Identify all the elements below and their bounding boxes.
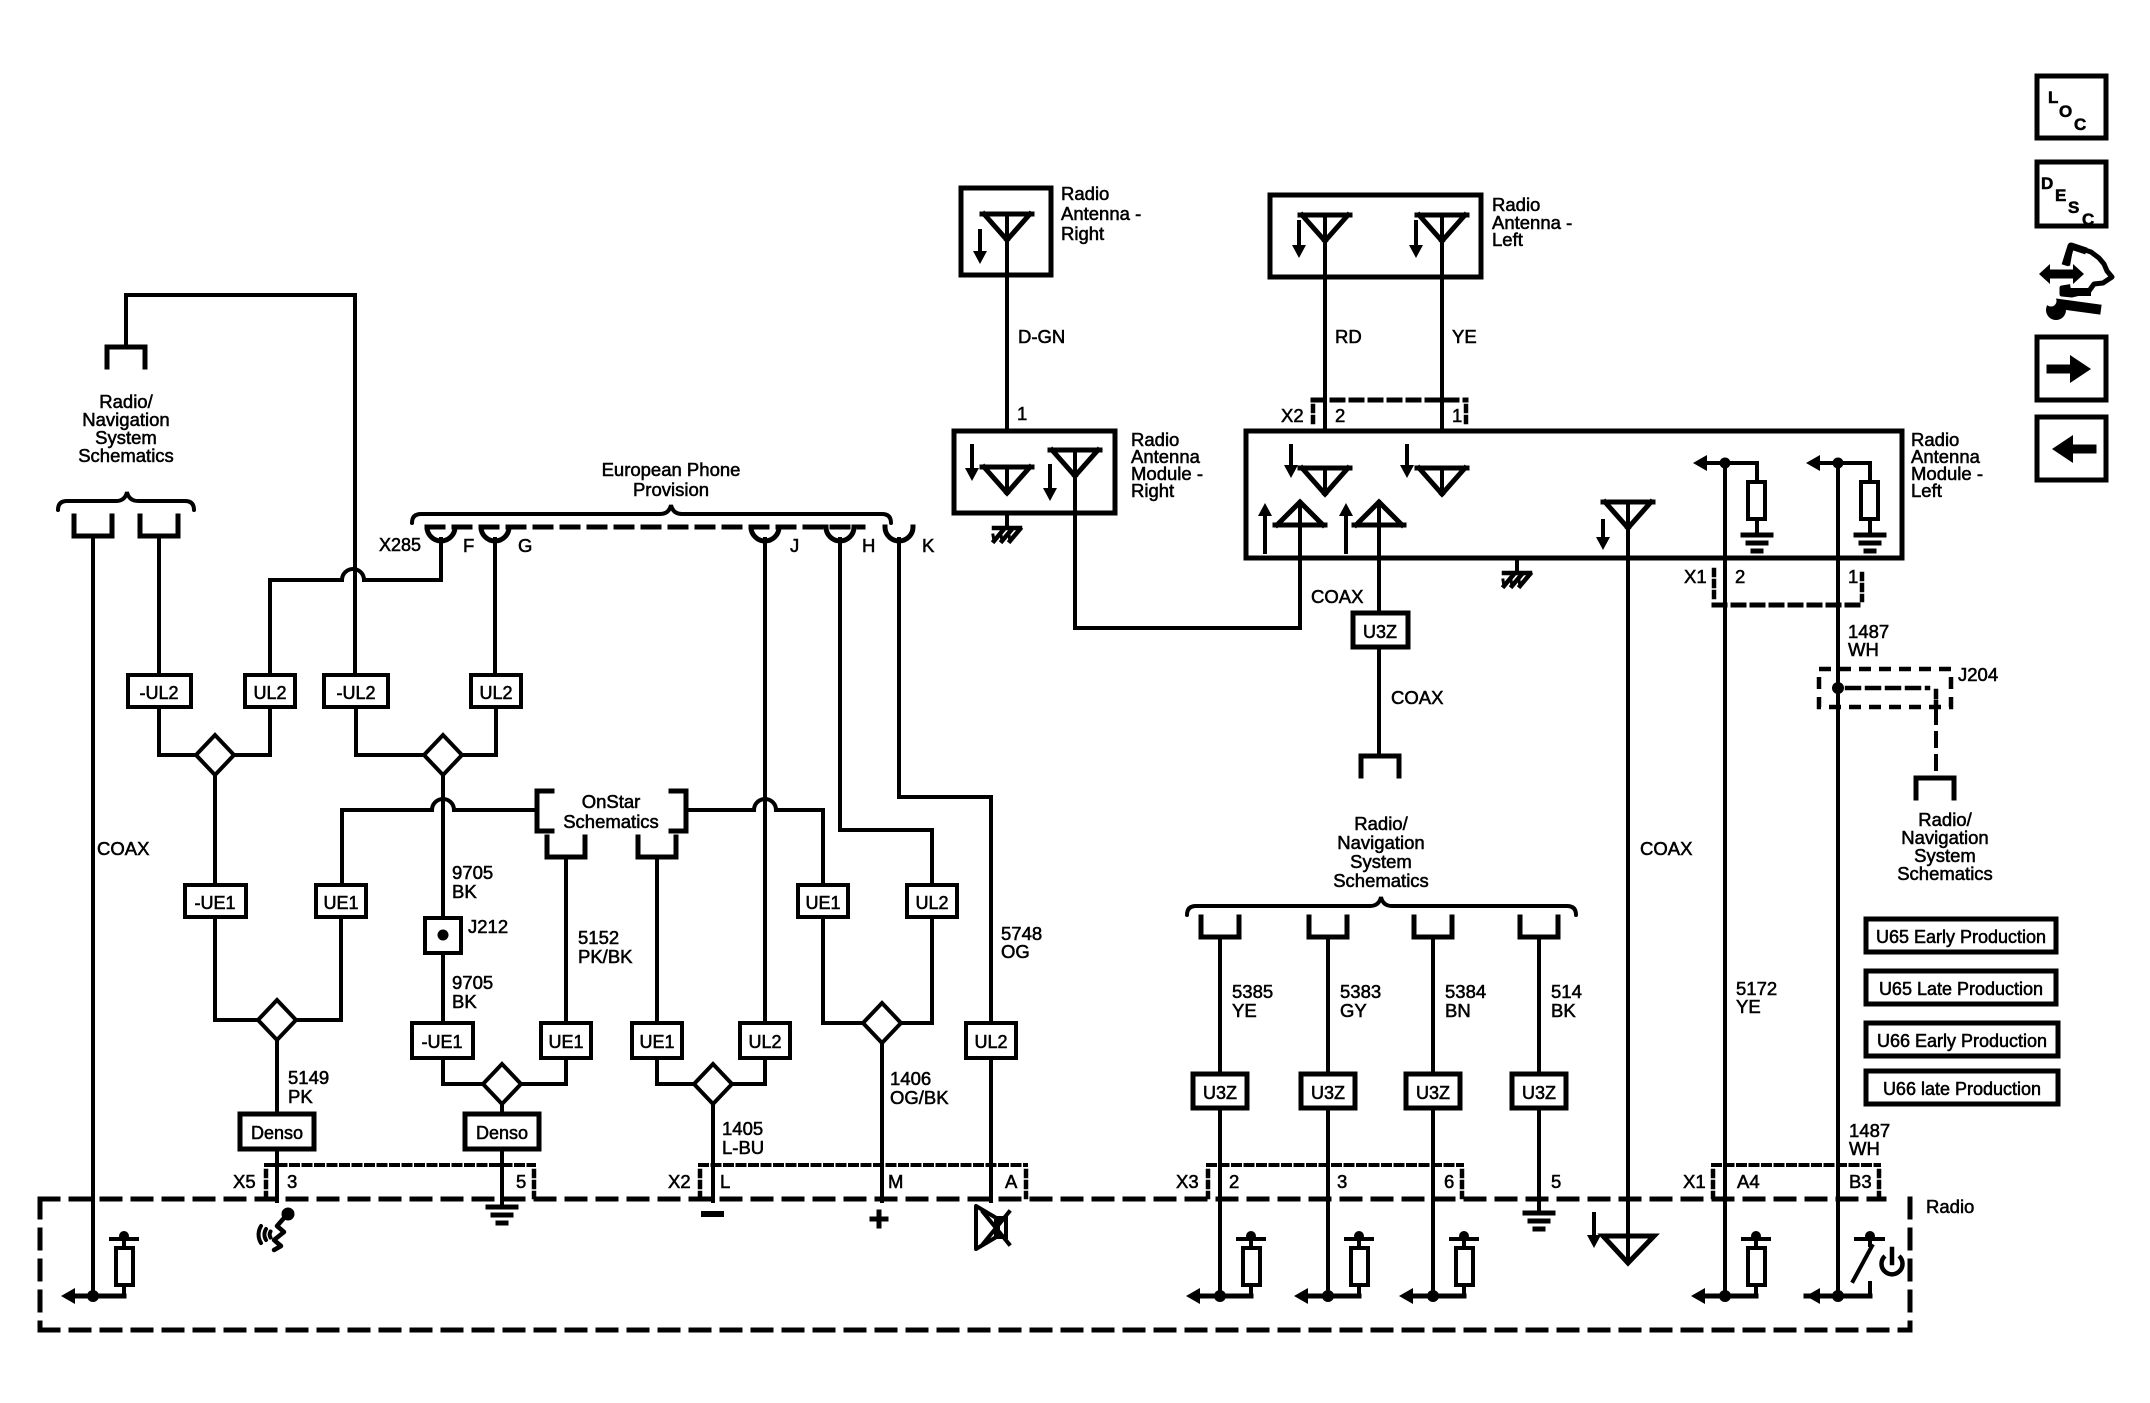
wire Denso 2 to X5 pin 5: [500, 1149, 504, 1207]
svg-text:L-BU: L-BU: [722, 1137, 764, 1158]
label X2 pin 1: [1452, 405, 1462, 426]
arrow up (module left 1): [1258, 503, 1272, 552]
junction J204 dashed box: [1819, 669, 1951, 707]
component U3Z (coax): [1353, 613, 1408, 647]
wire RD: [1323, 241, 1327, 468]
wire -UE1#2 to splice 4: [443, 1058, 483, 1084]
connector X1 dashed line (module left bottom): [1714, 570, 1862, 605]
svg-text:D-GN: D-GN: [1018, 326, 1065, 347]
off-page connector cap (J204): [1916, 778, 1954, 798]
svg-text:C: C: [2074, 115, 2086, 134]
svg-text:UL2: UL2: [253, 683, 286, 703]
label X5: [233, 1171, 256, 1192]
wire splice 6 to X2 pin M: [880, 1043, 884, 1201]
junction dot J204: [1832, 682, 1844, 694]
component Denso (right): [465, 1114, 539, 1149]
wire UL2#2 to splice 2: [462, 707, 496, 755]
splice diamond 2: [424, 735, 462, 775]
wire Denso to X5 pin 3: [275, 1149, 279, 1201]
wire U3Z-3 to X3 pin 6: [1431, 1108, 1435, 1199]
off-page connector cup (-UL2 feed): [140, 516, 178, 536]
label COAX right: [1640, 838, 1692, 859]
svg-text:5385: 5385: [1232, 981, 1273, 1002]
connector X2 dotted strip: [700, 1165, 1026, 1197]
svg-text:European Phone: European Phone: [602, 459, 741, 480]
connector label UE1 (1): [316, 885, 366, 917]
wire OnStar cup 2 down: [655, 857, 659, 1023]
svg-text:9705: 9705: [452, 862, 493, 883]
svg-text:Schematics: Schematics: [563, 811, 659, 832]
wire OnStar left to UE1: [342, 810, 537, 885]
svg-text:X2: X2: [668, 1171, 691, 1192]
svg-text:Schematics: Schematics: [78, 445, 174, 466]
label X3 pin 2: [1229, 1171, 1239, 1192]
wire 514 down: [1537, 937, 1541, 1074]
off-page connector cup (COAX left): [74, 516, 112, 536]
wire -UL2 to splice 1: [159, 707, 196, 755]
label X2 pin M: [888, 1171, 903, 1192]
arrow down (radio coax): [1587, 1214, 1601, 1248]
wire 5385 down: [1218, 937, 1222, 1074]
option box U66 Early Production: [1866, 1023, 2058, 1056]
node Radio/Navigation System Schematics label (top left): [78, 391, 174, 466]
label 5383 GY: [1340, 981, 1381, 1021]
icon arrow right box: [2037, 337, 2106, 400]
label RD: [1335, 326, 1362, 347]
brace European Phone Provision: [412, 505, 891, 523]
label Radio: [1926, 1196, 1974, 1217]
connector label -UE1 (1): [185, 885, 246, 917]
svg-text:5152: 5152: [578, 927, 619, 948]
component Denso (left): [240, 1114, 314, 1149]
svg-text:1405: 1405: [722, 1118, 763, 1139]
wire splice 2 down to J212: [441, 775, 445, 918]
label X1 pin 1: [1848, 566, 1858, 587]
wire UL2 to splice 1: [235, 707, 270, 755]
component Radio Antenna Module - Left box: [1246, 431, 1902, 558]
svg-text:UE1: UE1: [805, 893, 840, 913]
connector label UL2 (K): [966, 1023, 1016, 1058]
label COAX left: [97, 838, 149, 859]
off-page connector cup (X3 feed 4): [1520, 917, 1558, 937]
svg-text:3: 3: [1337, 1171, 1347, 1192]
svg-text:U3Z: U3Z: [1311, 1083, 1345, 1103]
svg-text:F: F: [463, 535, 474, 556]
label 1487 WH (upper): [1848, 621, 1889, 660]
connector label UL2 (H): [907, 885, 957, 917]
svg-text:-UE1: -UE1: [194, 893, 235, 913]
termination resistor (X1 A4): [1691, 1199, 1769, 1304]
connector label UE1 (OnStar right): [798, 885, 848, 917]
svg-text:1: 1: [1848, 566, 1858, 587]
wire COAX left (to radio): [91, 536, 95, 1298]
label 1406 OG/BK: [890, 1068, 949, 1108]
svg-text:X1: X1: [1684, 566, 1707, 587]
svg-text:YE: YE: [1452, 326, 1477, 347]
wire UL2(J) to splice 5: [732, 1058, 765, 1084]
dashed wire J204 to schematics: [1934, 710, 1938, 774]
svg-text:-UL2: -UL2: [336, 683, 375, 703]
svg-text:OG/BK: OG/BK: [890, 1087, 949, 1108]
wire UE1(OnStar) to splice 6: [823, 917, 863, 1023]
svg-text:1: 1: [1452, 405, 1462, 426]
connector label -UE1 (2): [412, 1023, 473, 1058]
svg-text:System: System: [1350, 851, 1412, 872]
svg-text:D: D: [2041, 174, 2053, 193]
svg-text:RD: RD: [1335, 326, 1362, 347]
wire X1-2 down to radio (5172): [1723, 558, 1727, 1298]
svg-text:U3Z: U3Z: [1522, 1083, 1556, 1103]
icon arrow left box: [2037, 417, 2106, 480]
ground below X5 pin 5: [488, 1207, 516, 1223]
svg-text:514: 514: [1551, 981, 1582, 1002]
option box U65 Early Production: [1866, 919, 2056, 952]
svg-text:PK: PK: [288, 1086, 313, 1107]
svg-text:Left: Left: [1492, 229, 1523, 250]
polarity minus at pin L: [704, 1211, 721, 1217]
svg-text:Schematics: Schematics: [1333, 870, 1429, 891]
svg-text:Radio: Radio: [1926, 1196, 1974, 1217]
off-page connector cup OnStar 2: [638, 837, 676, 857]
connector X285 pin F: [427, 527, 474, 556]
wire U3Z-1 to X3 pin 2: [1218, 1108, 1222, 1199]
svg-text:3: 3: [287, 1171, 297, 1192]
wire U3Z-4 to pin 5 ground: [1537, 1108, 1541, 1211]
wire top-left L from off-page connector to -UL2 branch: [126, 295, 355, 675]
label X2 pin L: [720, 1171, 730, 1192]
svg-text:UE1: UE1: [548, 1032, 583, 1052]
svg-text:OnStar: OnStar: [582, 791, 641, 812]
connector X285 pin H: [826, 527, 875, 556]
wire module left ground stub: [1515, 558, 1519, 573]
svg-text:Right: Right: [1061, 223, 1104, 244]
splice diamond 6: [863, 1003, 901, 1043]
label Radio Antenna Module - Right: [1131, 429, 1203, 501]
label 5172 YE: [1736, 978, 1777, 1017]
antenna symbol down RD (module left): [1300, 468, 1350, 494]
wire OnStar right to UE1: [686, 810, 823, 885]
component U3Z (2): [1301, 1074, 1355, 1108]
svg-text:Radio: Radio: [1061, 183, 1109, 204]
label 9705 BK (upper): [452, 862, 493, 902]
ground below pin 5 (X3): [1525, 1213, 1553, 1229]
label 5152 PK/BK: [578, 927, 633, 967]
svg-text:COAX: COAX: [1311, 586, 1363, 607]
svg-text:YE: YE: [1232, 1000, 1257, 1021]
arrow down (module right 2): [1043, 466, 1057, 501]
label Radio Antenna Module - Left: [1911, 429, 1983, 501]
svg-text:5149: 5149: [288, 1067, 329, 1088]
label X3 pin 6: [1444, 1171, 1454, 1192]
component U3Z (4): [1512, 1074, 1566, 1108]
connector label UE1 (2): [541, 1023, 591, 1058]
svg-text:Left: Left: [1911, 480, 1942, 501]
bracket OnStar right: [671, 791, 686, 831]
svg-text:M: M: [888, 1171, 903, 1192]
node Radio/Navigation System Schematics label (bottom middle): [1333, 813, 1429, 891]
label 1405 L-BU: [722, 1118, 764, 1158]
wire splice 1 down to -UE1: [213, 775, 217, 885]
term structure B (module left): arrow, resistor, ground: [1806, 455, 1884, 558]
svg-text:5: 5: [516, 1171, 526, 1192]
svg-text:C: C: [2082, 210, 2094, 229]
wire UE1#3 to splice 5: [657, 1058, 694, 1084]
off-page connector cup OnStar 1: [547, 837, 585, 857]
svg-text:WH: WH: [1848, 639, 1879, 660]
svg-text:OG: OG: [1001, 941, 1030, 962]
termination resistor (COAX left): [61, 1231, 137, 1304]
svg-text:6: 6: [1444, 1171, 1454, 1192]
svg-text:U66 Early Production: U66 Early Production: [1877, 1031, 2047, 1051]
connector label UL2 (1): [245, 675, 295, 707]
wire hop over pin J wire: [754, 799, 776, 810]
antenna symbol up 2 (module left): [1354, 502, 1404, 613]
label COAX (module link): [1311, 586, 1363, 607]
junction J212: [425, 918, 461, 953]
svg-text:O: O: [2059, 102, 2072, 121]
antenna symbol down (module right): [982, 467, 1032, 493]
option box U65 Late Production: [1866, 971, 2056, 1004]
svg-text:B3: B3: [1849, 1171, 1872, 1192]
svg-text:9705: 9705: [452, 972, 493, 993]
chassis ground (module right): [993, 528, 1020, 541]
label 5384 BN: [1445, 981, 1486, 1021]
svg-text:-UE1: -UE1: [421, 1032, 462, 1052]
arrow down (module right 1): [965, 446, 979, 481]
arrow down (module left YE): [1400, 446, 1414, 478]
splice diamond 5: [694, 1064, 732, 1104]
connector label UE1 (3): [632, 1023, 682, 1058]
label X5 pin 3: [287, 1171, 297, 1192]
connector X285 dashed line: [427, 525, 863, 530]
antenna symbol left-2: [1417, 215, 1467, 241]
svg-text:2: 2: [1229, 1171, 1239, 1192]
coax open triangle terminal: [1603, 1236, 1654, 1263]
label X3 pin 3: [1337, 1171, 1347, 1192]
polarity plus at pin M: [872, 1212, 886, 1226]
option box U66 late Production: [1866, 1071, 2058, 1104]
term structure A (module left): arrow, resistor, ground: [1693, 455, 1771, 558]
svg-text:BK: BK: [452, 991, 477, 1012]
svg-text:U65 Early Production: U65 Early Production: [1876, 927, 2046, 947]
off-page connector (top left): [107, 347, 145, 367]
label X3: [1176, 1171, 1199, 1192]
label COAX (below U3Z): [1391, 687, 1443, 708]
termination resistor (X3 pin 6): [1399, 1199, 1477, 1304]
svg-text:Denso: Denso: [251, 1123, 303, 1143]
wire module right ground stub: [1005, 513, 1009, 528]
label X2 module left: [1281, 405, 1304, 426]
antenna symbol (antenna right): [982, 214, 1032, 240]
wire COAX right down to radio: [1626, 525, 1630, 1260]
label X2 pin 2: [1335, 405, 1345, 426]
svg-text:U3Z: U3Z: [1363, 622, 1397, 642]
component Radio Antenna - Right box: [961, 188, 1051, 275]
splice diamond 1: [196, 735, 234, 775]
svg-text:UL2: UL2: [479, 683, 512, 703]
svg-text:U66 late Production: U66 late Production: [1883, 1079, 2041, 1099]
label D-GN: [1018, 326, 1065, 347]
termination resistor (X3 pin 2): [1186, 1199, 1264, 1304]
wire pin K to UL2 (5748): [899, 539, 991, 1023]
splice diamond 4: [483, 1064, 521, 1104]
arrow down (antenna right): [973, 231, 987, 264]
svg-text:BK: BK: [452, 881, 477, 902]
connector label UL2 (2): [471, 675, 521, 707]
wire UL2(H) to splice 6: [901, 917, 932, 1023]
svg-text:X2: X2: [1281, 405, 1304, 426]
connector label UL2 (J): [740, 1023, 790, 1058]
node OnStar Schematics label: [563, 791, 659, 832]
svg-text:X3: X3: [1176, 1171, 1199, 1192]
label X285: [379, 535, 421, 555]
svg-text:Denso: Denso: [476, 1123, 528, 1143]
svg-text:X285: X285: [379, 535, 421, 555]
wire pin J down to UL2: [763, 539, 767, 1023]
svg-text:YE: YE: [1736, 996, 1761, 1017]
label Radio Antenna - Right: [1061, 183, 1141, 244]
svg-text:U3Z: U3Z: [1203, 1083, 1237, 1103]
icon DESC box: [2037, 162, 2106, 229]
connector X3 dotted strip: [1208, 1165, 1462, 1197]
label X1 pin A4: [1737, 1171, 1760, 1192]
label X1 pin B3: [1849, 1171, 1872, 1192]
label 5149 PK: [288, 1067, 329, 1107]
wire splice 3 to Denso: [275, 1040, 279, 1114]
antenna symbol coax out (module left): [1603, 502, 1653, 528]
svg-text:Navigation: Navigation: [1337, 832, 1424, 853]
node Radio/Navigation System Schematics label (right): [1897, 809, 1993, 884]
svg-text:2: 2: [1735, 566, 1745, 587]
svg-text:Antenna -: Antenna -: [1061, 203, 1141, 224]
svg-text:GY: GY: [1340, 1000, 1367, 1021]
svg-text:UL2: UL2: [748, 1032, 781, 1052]
svg-text:BK: BK: [1551, 1000, 1576, 1021]
wire pin H to UL2: [840, 539, 932, 885]
label X5 pin 5: [516, 1171, 526, 1192]
wire D-GN antenna to module: [1005, 240, 1009, 467]
connector X5 dotted strip: [266, 1165, 534, 1197]
wire pin G to UL2 #2: [493, 539, 497, 675]
termination resistor (X3 pin 3): [1294, 1199, 1372, 1304]
icon LOC box: [2037, 76, 2106, 138]
wire cup to -UL2 box: [157, 536, 161, 675]
wire hop over vertical at x353: [342, 569, 364, 580]
label X2 pin A: [1005, 1171, 1018, 1192]
svg-text:COAX: COAX: [97, 838, 149, 859]
wire YE: [1440, 241, 1444, 468]
label X1 (radio): [1683, 1171, 1706, 1192]
svg-text:COAX: COAX: [1640, 838, 1692, 859]
brace radio/nav schematics (bottom middle): [1187, 897, 1576, 915]
wire hop over splice-2 wire: [432, 799, 454, 810]
brace radio/nav schematics left: [58, 492, 194, 510]
svg-text:G: G: [518, 535, 532, 556]
label 1487 WH (lower): [1849, 1120, 1890, 1159]
component Radio Antenna Module - Right box: [954, 431, 1115, 513]
svg-text:1406: 1406: [890, 1068, 931, 1089]
svg-text:BN: BN: [1445, 1000, 1471, 1021]
off-page connector cup (X3 feed 2): [1309, 917, 1347, 937]
svg-text:COAX: COAX: [1391, 687, 1443, 708]
off-page connector cap (coax): [1361, 756, 1399, 776]
wire pin F to UL2: [270, 539, 441, 675]
svg-text:L: L: [720, 1171, 730, 1192]
svg-text:H: H: [862, 535, 875, 556]
wire X1-1 down to radio (1487): [1836, 558, 1840, 1298]
wire splice 4 to Denso 2: [500, 1104, 504, 1114]
wire COAX module right to module left: [1075, 475, 1300, 628]
label J212: [468, 916, 508, 937]
svg-text:U65 Late Production: U65 Late Production: [1879, 979, 2043, 999]
svg-text:5384: 5384: [1445, 981, 1486, 1002]
microphone icon (pin 3): [259, 1208, 295, 1251]
svg-text:UE1: UE1: [323, 893, 358, 913]
label Radio Antenna - Left: [1492, 194, 1572, 250]
svg-text:UL2: UL2: [974, 1032, 1007, 1052]
label 5748 OG: [1001, 923, 1042, 962]
wire 5383 down: [1326, 937, 1330, 1074]
connector X285 pin J: [751, 527, 799, 556]
arrow down (module left coax): [1596, 521, 1610, 550]
icon vehicle with arrows and wrench: [2039, 246, 2112, 320]
wire U3Z-2 to X3 pin 3: [1326, 1108, 1330, 1199]
antenna symbol down YE (module left): [1417, 468, 1467, 494]
svg-text:5: 5: [1551, 1171, 1561, 1192]
speaker muted icon (pin A): [976, 1206, 1009, 1249]
chassis ground (module left): [1503, 573, 1530, 586]
antenna symbol up-right (module right): [1050, 450, 1100, 476]
connector X1 dotted strip (radio): [1713, 1165, 1879, 1197]
termination switch (X1 B3) with power icon: [1806, 1231, 1903, 1304]
wire OnStar cup 1 down (5152): [564, 857, 568, 1023]
wire UL2(K) to X2 pin A: [989, 1058, 993, 1201]
svg-text:J204: J204: [1958, 664, 1998, 685]
connector label -UL2 (2): [324, 675, 388, 707]
svg-text:E: E: [2055, 186, 2066, 205]
label pin 1 module right: [1017, 403, 1027, 424]
label X1 module left: [1684, 566, 1707, 587]
svg-text:L: L: [2048, 88, 2058, 107]
svg-text:Schematics: Schematics: [1897, 863, 1993, 884]
svg-text:X5: X5: [233, 1171, 256, 1192]
label 5385 YE: [1232, 981, 1273, 1021]
label YE: [1452, 326, 1477, 347]
antenna symbol up 1 (module left): [1275, 502, 1325, 558]
svg-text:5383: 5383: [1340, 981, 1381, 1002]
label European Phone Provision: [602, 459, 741, 500]
svg-text:K: K: [922, 535, 935, 556]
wire splice 5 to X2 pin L: [711, 1104, 715, 1201]
wire -UE1 to splice 3: [215, 917, 258, 1020]
arrow down (module left RD): [1284, 446, 1298, 478]
wire J212 to -UE1: [441, 953, 445, 1023]
arrow down (antenna left 1): [1292, 222, 1306, 258]
svg-text:X1: X1: [1683, 1171, 1706, 1192]
label pin 5 (X3 area): [1551, 1171, 1561, 1192]
svg-text:Radio/: Radio/: [1354, 813, 1408, 834]
svg-text:PK/BK: PK/BK: [578, 946, 633, 967]
arrow up (module left 2): [1339, 503, 1353, 552]
svg-text:A4: A4: [1737, 1171, 1760, 1192]
svg-text:Provision: Provision: [633, 479, 709, 500]
arrow down (antenna left 2): [1409, 222, 1423, 258]
wire UE1 to splice 3: [296, 917, 341, 1020]
svg-text:2: 2: [1335, 405, 1345, 426]
off-page connector cup (X3 feed 1): [1201, 917, 1239, 937]
svg-text:J: J: [790, 535, 799, 556]
svg-text:-UL2: -UL2: [139, 683, 178, 703]
